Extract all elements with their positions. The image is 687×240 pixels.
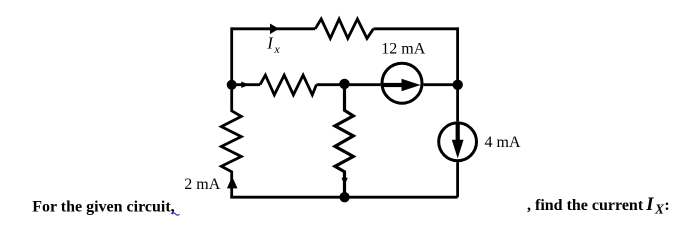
wire: top rail right of resistor <box>373 27 457 30</box>
current arrow 2 mA (up) on left branch <box>227 177 238 189</box>
svg-text:, find the current: , find the current <box>527 197 644 214</box>
svg-text:2 mA: 2 mA <box>184 176 220 193</box>
spellcheck squiggle under comma <box>172 213 180 215</box>
wire: top horizontal rail <box>232 27 316 30</box>
node dot: right middle <box>453 80 463 90</box>
small current arrow (right) on middle rail <box>241 82 249 89</box>
current source U2 4 mA (circle) <box>439 123 477 161</box>
wire: right vertical top section <box>456 27 459 121</box>
svg-text:12 mA: 12 mA <box>381 41 425 58</box>
resistor (left vertical, 2 mA branch) <box>221 85 241 197</box>
wire: middle rail from left node to resistor <box>232 83 260 86</box>
node dot: left middle <box>227 80 237 90</box>
resistor (top, on Ix branch) <box>315 19 373 38</box>
current source U1 12 mA (circle) <box>382 63 422 103</box>
wire: left vertical (top section) <box>230 27 233 85</box>
svg-text:4 mA: 4 mA <box>485 134 521 151</box>
arrow inside 4 mA source <box>456 122 460 142</box>
resistor (middle horizontal) <box>260 75 316 95</box>
wire: middle rail from resistor to 12 mA source <box>316 83 380 86</box>
node dot: bottom middle <box>339 192 349 202</box>
svg-text:x: x <box>273 42 280 56</box>
wire: bottom horizontal rail <box>230 196 457 199</box>
svg-text:I: I <box>645 195 654 215</box>
node dot: middle rail center <box>339 79 349 89</box>
current arrow Ix on top wire <box>270 24 279 35</box>
resistor (middle vertical) <box>335 84 353 197</box>
svg-text:X: X <box>654 202 665 217</box>
wire: middle rail from source to right node <box>423 83 457 86</box>
small current arrow (down) on middle vertical branch <box>342 178 348 186</box>
wire: right vertical bottom section <box>456 162 459 197</box>
svg-text::: : <box>664 197 669 214</box>
svg-text:I: I <box>266 34 274 53</box>
arrow inside 12 mA source <box>384 83 403 87</box>
svg-text:For the given circuit,: For the given circuit, <box>32 198 175 215</box>
